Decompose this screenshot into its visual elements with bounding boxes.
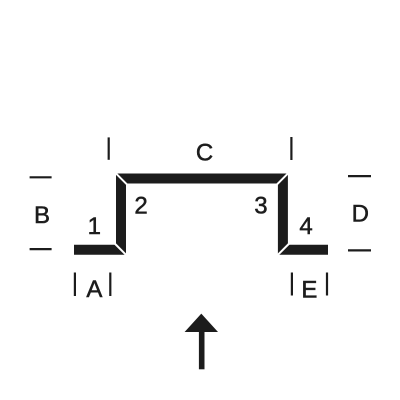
- svg-text:B: B: [34, 202, 50, 229]
- svg-text:2: 2: [134, 193, 147, 220]
- svg-text:1: 1: [88, 213, 101, 240]
- svg-text:C: C: [196, 139, 213, 166]
- left upper tick (B top): [30, 176, 52, 178]
- profile outline (hat channel cross-section): [74, 179, 328, 250]
- svg-text:E: E: [301, 277, 317, 304]
- right upper tick (D top): [348, 175, 371, 177]
- tick above right web: [290, 137, 292, 160]
- bend 1 miter gap: [113, 242, 129, 258]
- A left tick: [74, 273, 76, 297]
- E right tick: [326, 273, 328, 296]
- svg-text:3: 3: [254, 192, 267, 219]
- svg-text:D: D: [352, 201, 369, 228]
- bend 3 miter gap: [275, 171, 291, 187]
- arrow (pointing up): [185, 314, 218, 370]
- A right tick: [109, 273, 111, 297]
- bend 4 miter gap: [275, 242, 291, 258]
- right lower tick (D bottom): [348, 249, 371, 251]
- svg-text:4: 4: [299, 213, 312, 240]
- E left tick: [291, 273, 293, 296]
- bend 2 miter gap: [113, 171, 129, 187]
- svg-text:A: A: [86, 276, 102, 303]
- left lower tick (B bottom): [30, 248, 52, 250]
- tick above left web: [108, 137, 110, 159]
